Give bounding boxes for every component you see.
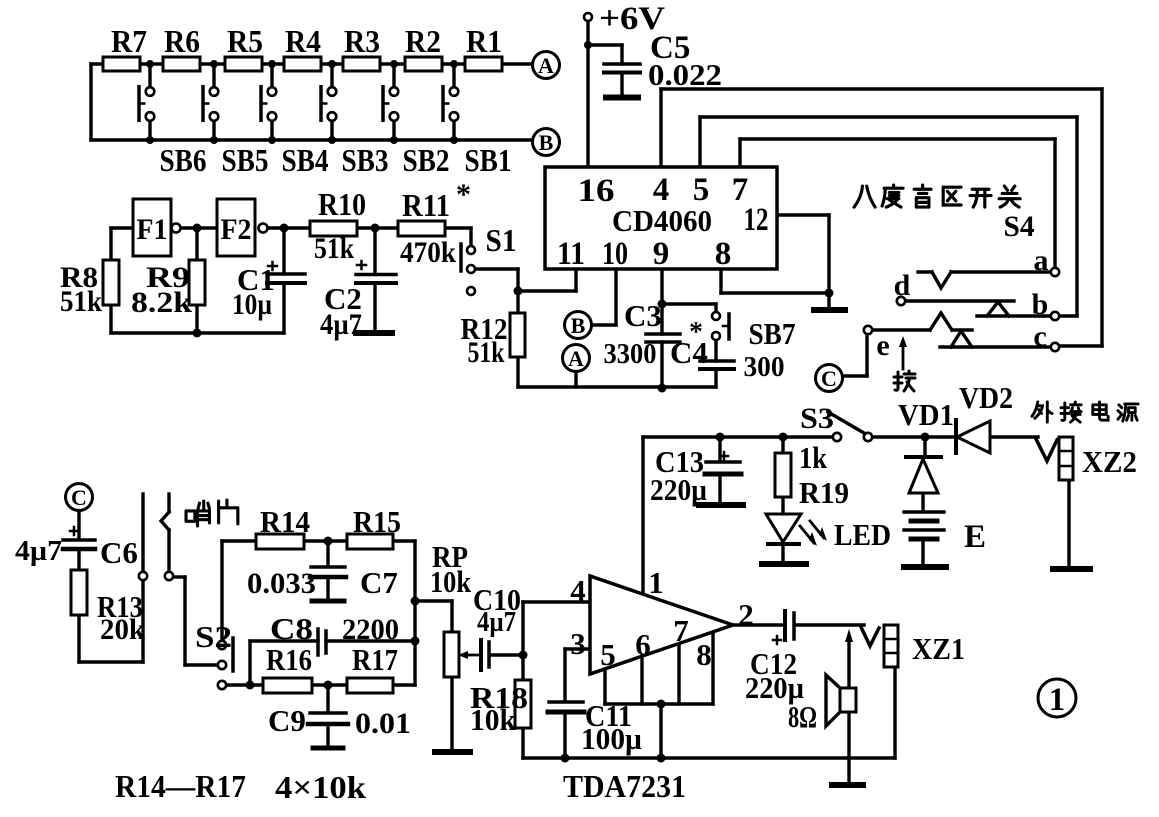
svg-text:C8: C8 (270, 611, 313, 646)
svg-text:A: A (538, 53, 554, 78)
svg-text:S2: S2 (195, 619, 232, 654)
svg-text:R15: R15 (353, 504, 401, 539)
svg-text:e: e (876, 329, 889, 362)
svg-text:51k: 51k (60, 285, 102, 318)
svg-text:XZ2: XZ2 (1082, 444, 1137, 479)
svg-text:a: a (1034, 244, 1049, 277)
svg-text:b: b (1032, 288, 1049, 321)
svg-text:4×10k: 4×10k (275, 769, 366, 805)
svg-text:SB3: SB3 (342, 142, 389, 178)
svg-text:C: C (821, 366, 837, 391)
svg-text:20k: 20k (100, 613, 145, 646)
svg-text:4µ7: 4µ7 (477, 607, 516, 638)
svg-text:10µ: 10µ (232, 288, 272, 321)
svg-text:16: 16 (578, 173, 615, 209)
svg-text:R2: R2 (405, 23, 441, 59)
svg-text:100µ: 100µ (581, 721, 642, 756)
svg-text:E: E (964, 519, 986, 555)
svg-text:B: B (539, 130, 554, 155)
svg-text:0.01: 0.01 (355, 707, 411, 740)
svg-text:F2: F2 (221, 213, 252, 246)
svg-text:F1: F1 (137, 213, 168, 246)
svg-text:S4: S4 (1004, 210, 1035, 243)
svg-text:d: d (894, 269, 911, 302)
svg-text:8: 8 (715, 236, 732, 272)
svg-text:R1: R1 (466, 23, 502, 59)
svg-text:R16: R16 (266, 642, 312, 677)
svg-text:S1: S1 (486, 222, 517, 258)
svg-text:B: B (571, 313, 586, 338)
svg-text:10k: 10k (470, 702, 517, 737)
svg-text:R7: R7 (111, 23, 147, 59)
svg-text:c: c (1033, 320, 1046, 353)
svg-text:R3: R3 (344, 23, 380, 59)
svg-text:R19: R19 (799, 475, 849, 510)
svg-text:8.2k: 8.2k (131, 286, 192, 319)
svg-text:9: 9 (653, 236, 670, 272)
svg-text:3300: 3300 (604, 339, 657, 370)
svg-text:R6: R6 (164, 23, 200, 59)
svg-text:5: 5 (600, 637, 616, 672)
svg-text:10k: 10k (430, 564, 472, 599)
svg-text:51k: 51k (468, 336, 505, 369)
svg-text:*: * (456, 178, 471, 211)
svg-text:8Ω: 8Ω (788, 699, 817, 734)
svg-text:CD4060: CD4060 (612, 203, 712, 238)
svg-text:470k: 470k (400, 236, 456, 269)
svg-text:SB2: SB2 (403, 142, 450, 178)
svg-text:R14: R14 (260, 504, 310, 539)
svg-text:R5: R5 (227, 23, 263, 59)
svg-text:0.022: 0.022 (648, 57, 722, 92)
svg-text:R11: R11 (402, 187, 450, 223)
svg-text:C3: C3 (624, 298, 662, 333)
svg-text:S3: S3 (800, 402, 834, 435)
svg-text:SB7: SB7 (749, 316, 796, 351)
svg-text:R14—R17: R14—R17 (115, 768, 246, 804)
svg-text:C: C (71, 485, 87, 510)
svg-text:4: 4 (570, 573, 586, 608)
svg-text:C7: C7 (360, 565, 398, 600)
svg-text:3: 3 (570, 626, 586, 661)
svg-text:SB4: SB4 (282, 142, 329, 178)
svg-text:SB6: SB6 (160, 142, 207, 178)
svg-text:0.033: 0.033 (247, 567, 316, 600)
svg-text:12: 12 (744, 202, 769, 238)
svg-text:TDA7231: TDA7231 (563, 768, 686, 804)
svg-text:R4: R4 (285, 23, 321, 59)
svg-text:4µ7: 4µ7 (320, 308, 362, 341)
svg-text:R10: R10 (318, 186, 366, 222)
svg-text:VD2: VD2 (959, 380, 1013, 415)
svg-text:11: 11 (557, 236, 585, 272)
svg-text:1k: 1k (799, 440, 828, 475)
svg-text:SB1: SB1 (465, 142, 512, 178)
svg-text:300: 300 (744, 352, 785, 383)
svg-text:220µ: 220µ (650, 472, 707, 507)
svg-text:LED: LED (834, 517, 891, 552)
svg-text:7: 7 (673, 613, 689, 648)
svg-text:6: 6 (635, 627, 651, 662)
svg-text:1: 1 (648, 565, 664, 600)
svg-text:C9: C9 (268, 703, 306, 738)
svg-text:4µ7: 4µ7 (15, 536, 62, 567)
svg-text:2: 2 (738, 597, 754, 632)
svg-text:10: 10 (602, 236, 628, 272)
svg-text:C4: C4 (670, 335, 708, 370)
svg-text:R17: R17 (352, 642, 398, 677)
svg-text:8: 8 (696, 637, 712, 672)
svg-text:A: A (568, 346, 584, 371)
svg-text:51k: 51k (314, 232, 354, 265)
svg-text:1: 1 (1049, 682, 1066, 718)
svg-text:XZ1: XZ1 (912, 631, 965, 666)
svg-text:C6: C6 (100, 535, 138, 570)
svg-text:SB5: SB5 (222, 142, 269, 178)
svg-text:VD1: VD1 (898, 397, 954, 432)
